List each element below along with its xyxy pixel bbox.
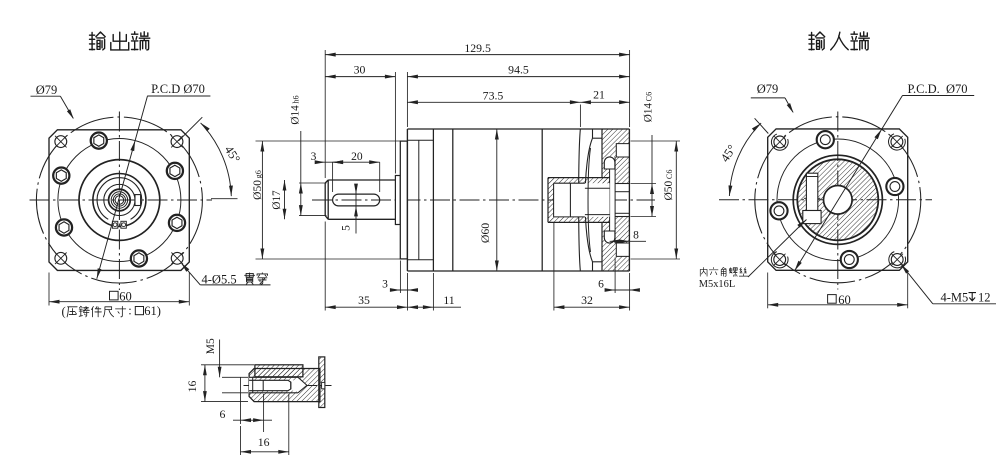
svg-text:11: 11 (443, 293, 454, 307)
svg-text:73.5: 73.5 (483, 88, 504, 102)
centerline horizontal, left view (30, 199, 213, 201)
svg-text:Ø17: Ø17 (271, 190, 283, 210)
dim dia50 C6 input spigot, middle view (631, 140, 681, 142)
input bore lines through flange, middle view (615, 183, 629, 185)
svg-text:Ø50 C6: Ø50 C6 (663, 169, 675, 200)
adapter bell curves, middle view (579, 130, 581, 271)
45 deg radial reference line, left view (179, 117, 203, 141)
clamp boss block hatched, detail view (255, 365, 303, 377)
svg-text:16: 16 (258, 435, 270, 449)
svg-text:16: 16 (185, 381, 199, 393)
PCD leader diagonal, right view (795, 96, 903, 271)
bolt circle PCD70, left view (58, 139, 181, 262)
PCD leader line diagonal, left view (97, 96, 148, 279)
svg-text:60: 60 (838, 293, 851, 307)
svg-text:129.5: 129.5 (464, 41, 491, 55)
bearing ball dome top, middle view (604, 157, 615, 169)
spigot recess circle dia50, right view (793, 155, 882, 244)
dimension square60, right view (767, 273, 769, 309)
svg-text:4-Ø5.5: 4-Ø5.5 (202, 272, 237, 286)
retaining ring circle with gap, left view (97, 178, 142, 220)
detail view centerline (244, 385, 332, 387)
4 mounting bolt holes, right view (817, 131, 834, 148)
tapped hole channel, detail view (249, 377, 307, 393)
svg-text:5: 5 (341, 225, 353, 231)
svg-text:P.C.D. Ø70: P.C.D. Ø70 (907, 82, 967, 96)
svg-text:20: 20 (351, 151, 363, 163)
coupling hatched circle, right view (797, 159, 878, 240)
svg-text:3: 3 (311, 151, 317, 163)
svg-text:32: 32 (581, 293, 593, 307)
bearing race white column, middle view (610, 157, 616, 243)
dim dia17 shaft, middle view (284, 180, 286, 219)
shaft step circles, left view (111, 192, 127, 208)
title: output end (Chinese) (89, 32, 149, 50)
svg-text:Ø60: Ø60 (478, 223, 492, 243)
dim 6 flange, middle view (614, 258, 616, 294)
phantom circle dia79, right view (755, 117, 921, 283)
svg-text:Ø50 g6: Ø50 g6 (252, 170, 264, 200)
svg-text:94.5: 94.5 (508, 63, 529, 77)
dim 16 height, detail view (201, 364, 254, 366)
dim 8 bearing, middle view (610, 240, 646, 242)
clamp collar box, middle view (554, 183, 610, 217)
shaft circle dia17, left view (109, 189, 131, 211)
keyway notch, left view (135, 195, 141, 206)
dim 73.5, middle view (579, 105, 581, 128)
dim dia60 body, middle view (496, 129, 498, 271)
main block hatched, detail view (249, 369, 320, 402)
square flange outline 60x60, left view (49, 130, 189, 271)
6 hex socket bolts on PCD, left view (91, 133, 107, 149)
4 corner through holes dia5.5, left view (55, 136, 67, 148)
shaft keyway slot 20x5, middle view (333, 194, 380, 206)
svg-text:30: 30 (354, 63, 366, 77)
svg-text:P.C.D Ø70: P.C.D Ø70 (151, 82, 205, 96)
clamp cavity and screw pocket, middle view (554, 183, 585, 217)
45 deg dimension arc, right view (729, 123, 761, 196)
body / adapter joint line, middle view (541, 129, 543, 271)
45 deg horizontal reference line, left view (211, 198, 238, 200)
svg-text:M5: M5 (205, 338, 217, 354)
dim 11 ring, middle view (432, 273, 434, 311)
dim 3 plate, middle view (399, 261, 401, 294)
dim 35 bottom, middle view (324, 222, 326, 311)
keyway dim 5, middle view (355, 187, 357, 233)
hub circle dia with keyway, left view (104, 184, 135, 215)
svg-text:35: 35 (358, 293, 370, 307)
svg-text:(: ( (62, 305, 66, 319)
svg-text:Ø14 C6: Ø14 C6 (643, 92, 655, 122)
clamp boss front, right view (806, 173, 817, 210)
dim 6 screw head, detail view (240, 377, 242, 424)
svg-text:61): 61) (144, 304, 161, 318)
M5 screw, detail view (253, 378, 297, 381)
centerline, middle view (312, 199, 655, 201)
svg-text:4-M5: 4-M5 (941, 291, 969, 305)
pilot circle dia50, left view (79, 160, 160, 241)
svg-text:3: 3 (382, 279, 388, 291)
dim dia50 g6 spigot, middle view (256, 140, 401, 142)
output shaft dia17, middle view (325, 180, 395, 219)
4 corner tapped holes M5, right view (771, 134, 788, 150)
dim dia14 C6 input bore, middle view (631, 183, 657, 185)
svg-text:6: 6 (598, 279, 604, 291)
45 deg radial reference, right view (755, 118, 769, 133)
flange plate edge, detail view (319, 357, 325, 408)
dim M5 leader, detail view (219, 340, 221, 378)
svg-text:60: 60 (119, 290, 132, 304)
coupling slit curve second, middle view (588, 148, 590, 252)
housing inner step rectangle, middle view (407, 139, 433, 141)
svg-text:Ø79: Ø79 (36, 83, 58, 97)
svg-text:21: 21 (593, 88, 605, 102)
svg-text:M5x16L: M5x16L (699, 279, 735, 290)
keyway dim 20, middle view (333, 161, 380, 163)
front housing ring joint lines, middle view (432, 129, 434, 271)
adapter corner steps, middle view (592, 129, 594, 138)
square flange outline, right view (768, 129, 908, 270)
svg-text:12: 12 (978, 291, 991, 305)
input flange hatched section, middle view (602, 129, 629, 271)
svg-text:Ø14 h6: Ø14 h6 (290, 95, 302, 124)
svg-text:8: 8 (633, 230, 639, 242)
input flange borders, middle view (601, 129, 603, 178)
title: input end (Chinese) (809, 32, 869, 50)
centerline horizontal, right view (719, 199, 932, 201)
centerline vertical, right view (837, 112, 839, 290)
coupling bore lines, middle view (585, 187, 610, 189)
dim 21, middle view (580, 101, 629, 103)
flange plate dia50 spigot, middle view (400, 141, 407, 259)
input bore dia14, right view (824, 186, 853, 215)
retaining ring lugs, left view (112, 221, 117, 228)
dim 16 depth, detail view (240, 426, 242, 455)
dim dia14 h6 shaft end, middle view (299, 182, 327, 184)
dim 32 adapter, middle view (553, 222, 555, 311)
45 deg dimension arc, left view (201, 123, 232, 196)
gearbox housing outline dia60, middle view (407, 128, 629, 130)
label hex socket screw M5x16L, right view (700, 267, 707, 276)
dim 94.5, middle view (406, 72, 408, 127)
centerline vertical, left view (118, 112, 120, 291)
phantom circle dia79, left view (36, 117, 202, 283)
shaft collar washer, middle view (395, 176, 400, 225)
svg-text:Ø79: Ø79 (757, 82, 779, 96)
dim 129.5 top, middle view (324, 50, 326, 178)
bolt circle PCD70, right view (777, 139, 899, 261)
svg-text::: : (128, 304, 131, 318)
bearing ball dome bottom, middle view (604, 231, 615, 243)
dimension square60, left view (49, 301, 189, 303)
keyway dim 3, middle view (316, 161, 341, 163)
dim 30 shaft, middle view (394, 72, 396, 174)
bearing bore circle, left view (93, 174, 146, 227)
svg-text:6: 6 (220, 407, 226, 421)
